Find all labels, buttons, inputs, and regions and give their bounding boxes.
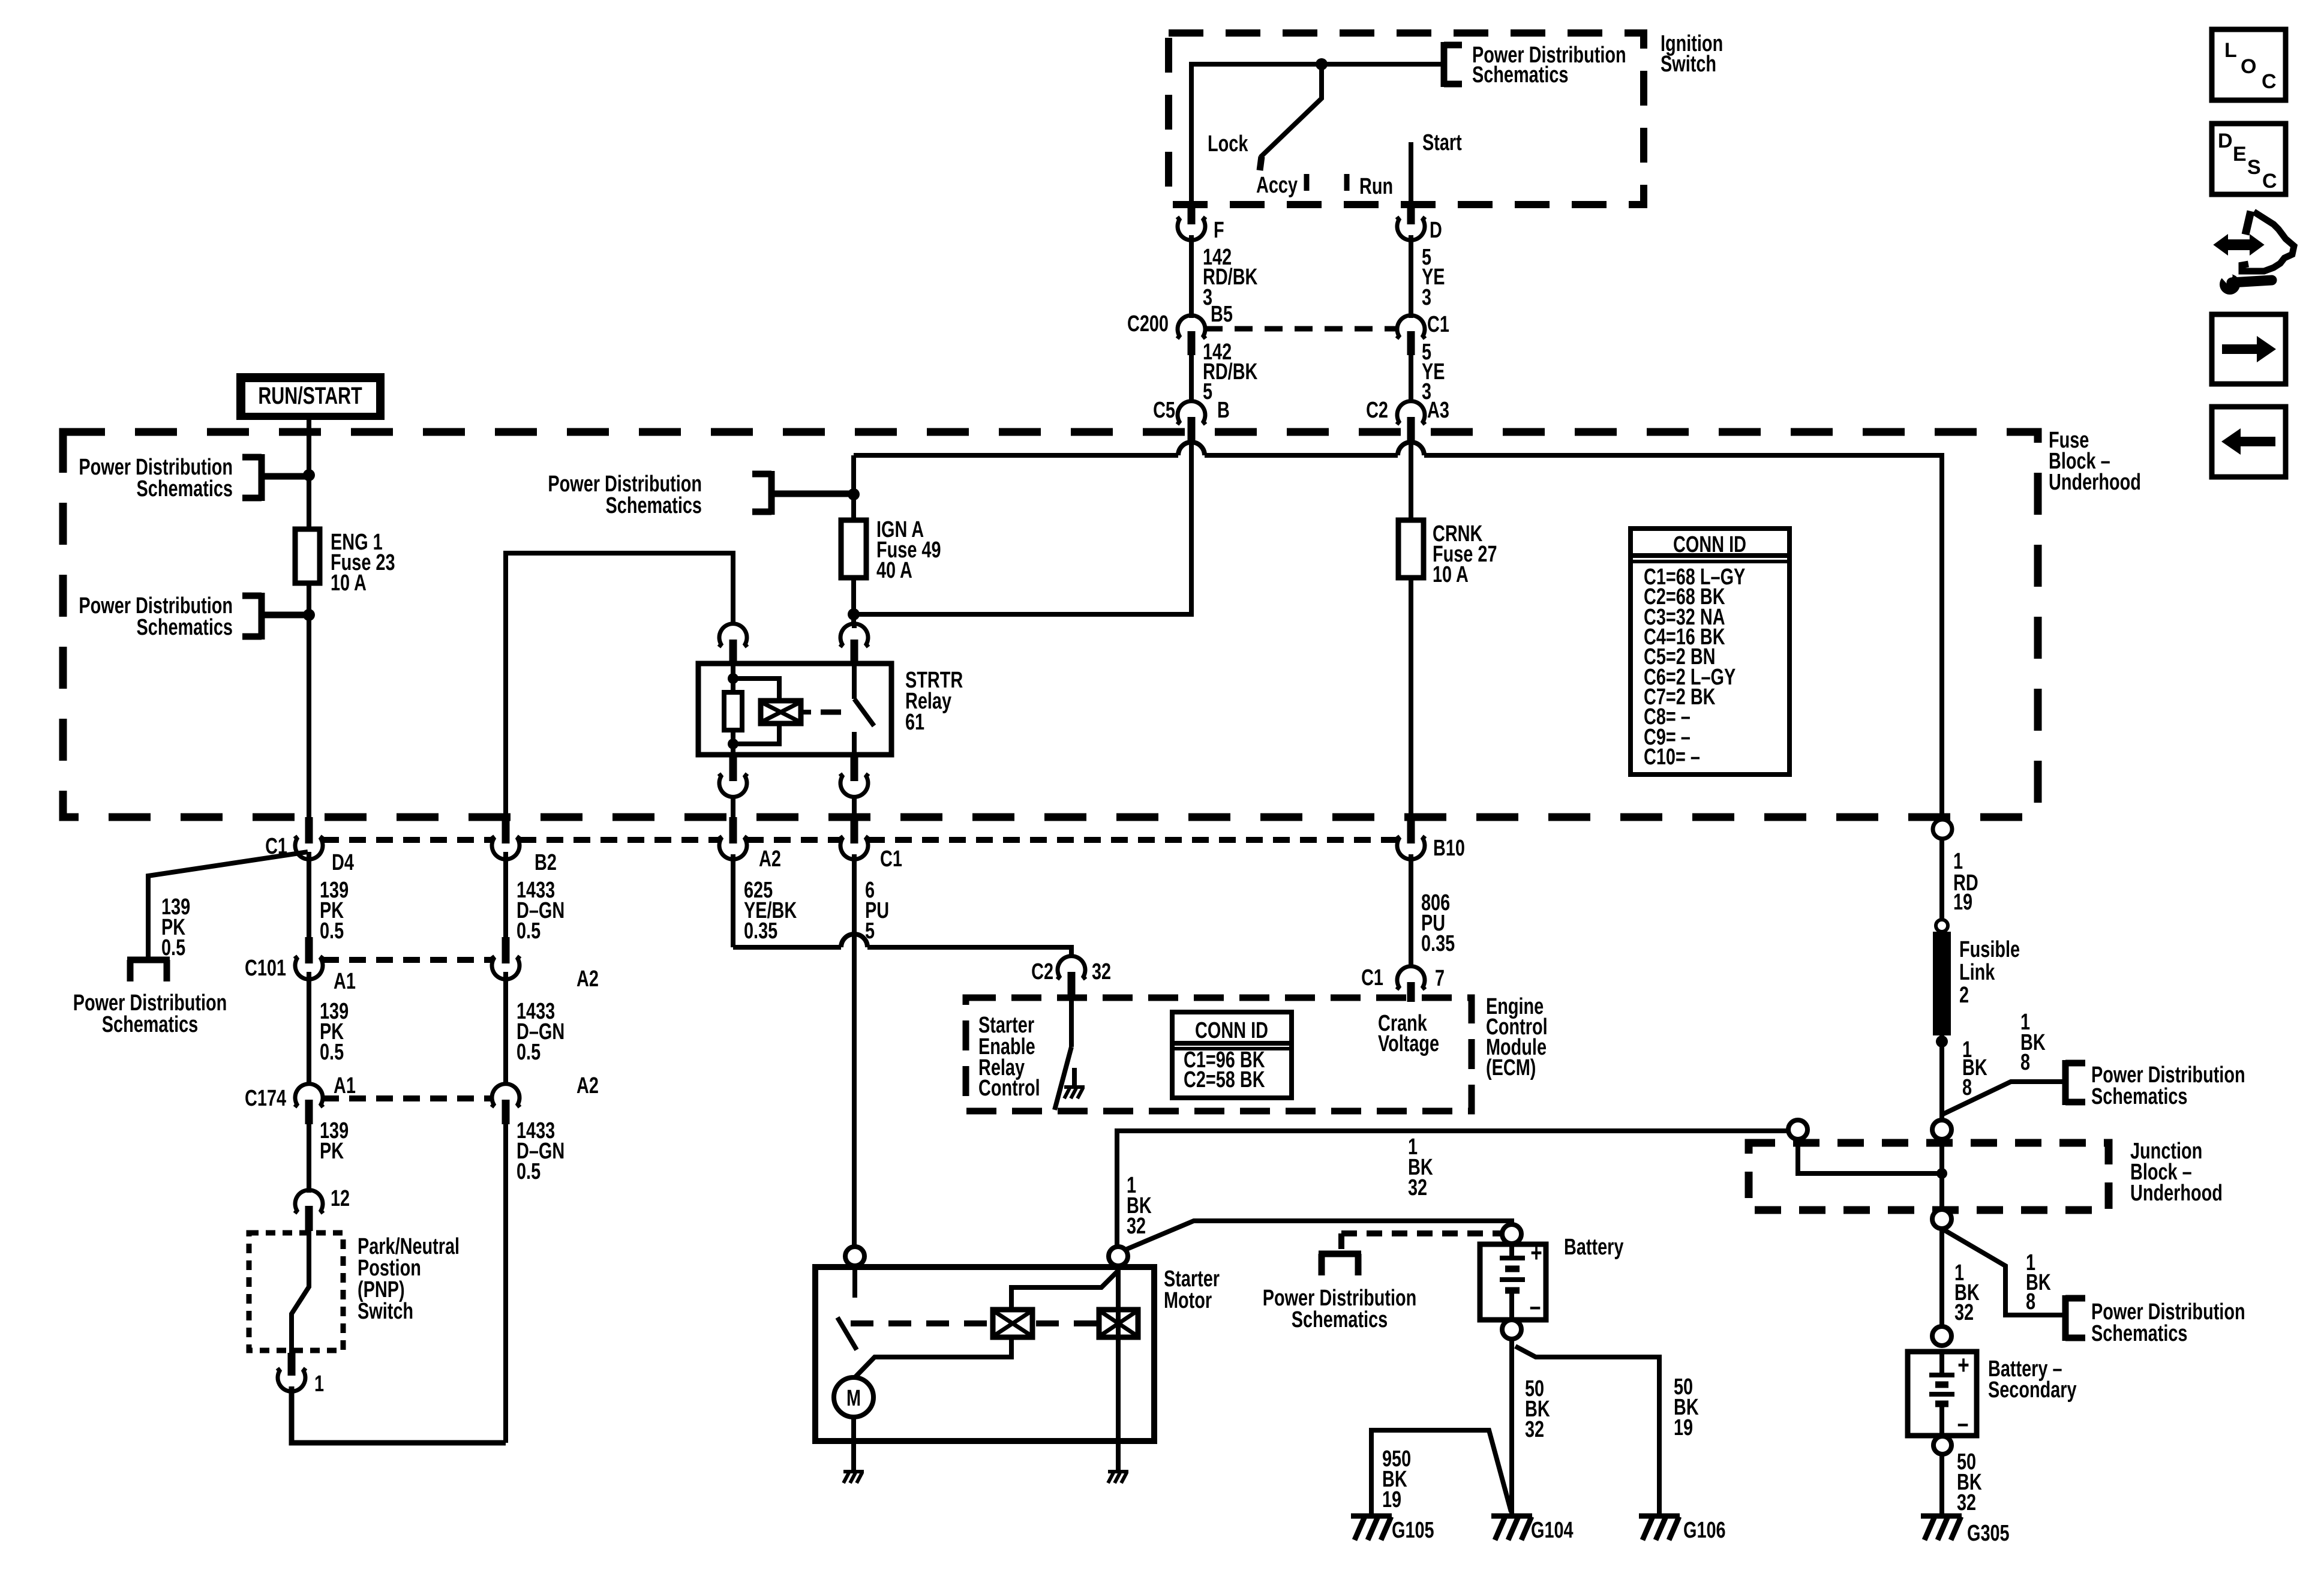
icon DESC box [2212,124,2286,194]
right terminal through coil2 to ground [1116,1266,1121,1441]
terminal eyelet junction block left [1788,1120,1807,1139]
svg-text:Switch: Switch [358,1298,413,1324]
svg-text:F: F [1214,217,1224,243]
svg-text:PK: PK [320,1138,344,1164]
svg-text:A2: A2 [577,966,599,992]
svg-text:A1: A1 [334,1073,356,1098]
svg-text:10 A: 10 A [1433,562,1469,587]
svg-text:C174: C174 [245,1085,286,1111]
svg-text:32: 32 [1127,1213,1146,1239]
svg-text:0.5: 0.5 [320,1039,344,1065]
wire 1433 D-GN 0.5 [506,852,565,944]
svg-text:C2: C2 [1366,397,1388,423]
wire 1433 D-GN 0.5 second [506,972,565,1086]
svg-text:C1: C1 [1361,965,1383,990]
ignition switch box [1169,31,1723,205]
svg-text:5: 5 [865,918,875,944]
wire 950 BK 19 G105 to G104 [1371,1430,1511,1514]
svg-text:0.5: 0.5 [320,918,344,944]
terminal eyelet battery secondary top [1932,1326,1951,1346]
node [303,469,315,481]
svg-text:Schematics: Schematics [1472,62,1568,88]
svg-text:Underhood: Underhood [2049,469,2141,495]
svg-text:O: O [2241,55,2256,78]
svg-text:Schematics: Schematics [137,476,233,502]
terminal eyelet junction block main [1932,1120,1951,1139]
wire relay control to ECM C2 with hop [733,934,1071,957]
battery body dashed link [1341,1230,1502,1236]
svg-text:Accy: Accy [1256,172,1298,198]
svg-text:Schematics: Schematics [1292,1307,1388,1332]
ground starter left [843,1472,864,1483]
connector C174 pin A2 [492,1073,599,1124]
icon left-arrow box [2212,407,2286,477]
svg-text:C2: C2 [1031,959,1053,984]
svg-text:1: 1 [314,1371,324,1397]
wire 139 PK to PNP [309,1118,349,1193]
node coil bottom [728,739,738,749]
node ignition junction [1316,58,1328,70]
PNP switch blade [292,1231,309,1353]
connector pin 12 PNP [295,1185,350,1231]
off-page bracket upper left [242,454,309,501]
connector C2 pin A3 [1366,397,1449,444]
fuse CRNK Fuse 27 10A [1398,520,1497,587]
svg-text:Schematics: Schematics [606,493,702,518]
wire 6 PU 5 [854,854,889,1247]
svg-text:A2: A2 [759,846,781,872]
wire 625 YE/BK 0.35 [733,854,797,947]
terminal eyelet below fuse block [1933,819,1952,839]
fuse ENG 1 Fuse 23 10A [295,529,395,596]
svg-text:32: 32 [1408,1175,1427,1200]
svg-text:0.5: 0.5 [517,1158,541,1184]
ground G105 [1351,1516,1392,1540]
junction block internal wires [1798,1139,1942,1209]
svg-text:G106: G106 [1683,1517,1726,1543]
wire CRNK column [1409,444,1413,520]
svg-text:E: E [2233,143,2247,166]
off-page bracket lower left [242,593,309,640]
PNP switch box [249,1233,460,1350]
svg-text:C1: C1 [1427,311,1449,337]
wire ENG1 column [307,419,311,817]
svg-text:B: B [1217,397,1230,423]
connector C200 C1 side [1397,311,1449,355]
svg-text:C: C [2262,70,2277,93]
svg-text:Underhood: Underhood [2130,1180,2223,1206]
svg-text:8: 8 [2026,1289,2035,1314]
svg-text:Schematics: Schematics [2091,1320,2187,1346]
svg-text:Battery: Battery [1564,1234,1624,1260]
svg-text:L: L [2224,39,2237,62]
wire ignition feed [1191,64,1444,205]
connector pin 1 PNP [278,1353,325,1397]
svg-text:Voltage: Voltage [1378,1031,1439,1056]
ECM box [966,993,1548,1111]
CONN ID table ECM [1172,1012,1292,1098]
svg-text:Switch: Switch [1661,51,1716,77]
svg-text:–: – [1530,1292,1541,1321]
svg-text:61: 61 [905,709,924,735]
ground G106 [1639,1516,1680,1540]
relay switch blade [854,664,874,755]
junction block underhood box [1749,1138,2223,1210]
svg-text:3: 3 [1422,284,1431,310]
solenoid coil 2 [1099,1310,1138,1337]
connector C174 row dashed body [322,1095,492,1101]
node junction block [1936,1168,1947,1179]
svg-text:C101: C101 [245,955,286,981]
svg-text:12: 12 [331,1185,350,1211]
terminal eyelet junction block bottom [1932,1209,1951,1229]
svg-text:19: 19 [1382,1487,1401,1512]
solenoid coil 1 [993,1310,1032,1337]
svg-text:G105: G105 [1392,1517,1434,1543]
coil1 feed from right terminal [1011,1271,1118,1310]
contact tick Run [1344,174,1350,191]
svg-text:M: M [846,1385,861,1411]
icon LOC box [2212,29,2286,100]
svg-text:19: 19 [1674,1415,1693,1440]
wire RUN/START feed from C5 B [854,444,1191,614]
wire 1 BK 8 branch upper [1942,1082,2062,1115]
svg-text:Lock: Lock [1208,131,1248,157]
relay STRTR 61 box [698,664,963,755]
motor M [834,1377,873,1417]
svg-text:19: 19 [1953,889,1972,915]
ground starter right [1108,1472,1128,1483]
terminal eyelet battery secondary bottom [1933,1436,1951,1454]
ground G305 [1921,1516,1962,1540]
svg-text:0.35: 0.35 [1421,930,1455,956]
svg-text:32: 32 [1525,1416,1544,1442]
svg-text:10 A: 10 A [331,570,367,596]
node [848,488,860,500]
wire 139 PK 0.5 branch diagonal [148,852,308,960]
svg-text:C5: C5 [1153,397,1175,423]
relay coil winding symbol [733,679,811,744]
svg-text:+: + [1530,1239,1542,1268]
svg-text:Schematics: Schematics [102,1011,198,1037]
connector C101 pin A1 [245,937,356,994]
svg-text:Control: Control [978,1075,1040,1101]
wire 5 YE 3 [1411,235,1445,318]
svg-text:Start: Start [1422,130,1462,155]
node coil top [728,673,738,684]
svg-text:7: 7 [1435,965,1445,991]
node [848,608,860,620]
wire PNP return loop [292,1386,506,1443]
off-page bracket right upper [2065,1060,2085,1105]
ECM internal switch [1055,998,1074,1110]
svg-text:C10= –: C10= – [1644,744,1700,770]
starter motor box [815,1266,1220,1441]
svg-text:C1: C1 [880,846,902,872]
svg-text:D: D [1430,217,1442,243]
svg-text:D: D [2218,130,2233,152]
wire 50 BK 19 to G106 [1515,1346,1659,1514]
fuse block underhood box [63,427,2141,817]
fuse IGN A Fuse 49 40A [841,517,941,583]
fuse block bottom connector row dashed body [322,837,1397,843]
terminal ring battery negative [1502,1320,1521,1339]
svg-text:CONN ID: CONN ID [1195,1017,1268,1043]
connector C1 pin 7 ECM [1361,965,1445,1002]
svg-text:B5: B5 [1211,301,1233,327]
battery secondary [1908,1351,2077,1438]
relay switch pin bottom [840,755,869,817]
svg-text:0.5: 0.5 [517,918,541,944]
svg-text:Motor: Motor [1164,1287,1212,1313]
svg-text:32: 32 [1954,1299,1974,1325]
svg-text:CONN ID: CONN ID [1673,532,1746,557]
svg-text:D4: D4 [332,849,354,875]
icon right-arrow box [2212,314,2286,384]
wire 139 PK 0.5 second [309,972,349,1086]
svg-text:40 A: 40 A [876,557,912,583]
wire 1 BK 32 to battery secondary [1939,1229,1944,1326]
svg-text:8: 8 [2020,1049,2030,1075]
starter solenoid switch [837,1266,1011,1377]
connector C101 pin A2 [492,937,599,992]
ground G104 [1491,1516,1532,1540]
wire below CRNK fuse [1409,578,1413,817]
svg-text:Schematics: Schematics [137,614,233,640]
svg-text:C: C [2262,170,2277,193]
connector F [1178,205,1224,243]
ground ECM internal [1064,1087,1085,1098]
off-page bracket right lower [2065,1295,2085,1341]
wire 806 PU 0.35 [1411,854,1455,967]
svg-text:+: + [1957,1351,1969,1380]
svg-text:S: S [2247,156,2261,179]
wire 50 BK 32 to G305 [1939,1454,1944,1514]
connector D [1397,205,1442,243]
svg-text:C200: C200 [1127,311,1169,337]
wire 1 BK 8 branch lower [1942,1229,2062,1315]
svg-text:B10: B10 [1433,835,1465,861]
wire down to junction block [1939,1035,1944,1120]
node below link [1936,1035,1948,1047]
svg-text:A2: A2 [577,1073,599,1098]
svg-text:Link: Link [1959,959,1995,985]
motor to ground left [851,1417,856,1471]
svg-text:5: 5 [1203,379,1212,404]
wire 1 BK 32 to battery [1121,1221,1512,1251]
connector C200 B5 side [1127,301,1233,355]
wire 1 BK 32 to junction block [1117,1131,1788,1247]
svg-text:Schematics: Schematics [2091,1083,2187,1109]
RUN/START label box [236,373,385,420]
svg-text:(ECM): (ECM) [1486,1055,1536,1080]
CONN ID table fuse block [1631,529,1789,775]
relay linkage dash [821,710,841,715]
svg-text:B2: B2 [535,849,557,875]
off-page bracket middle [752,471,854,515]
svg-text:A1: A1 [334,968,356,994]
icon vehicle with wrench [2214,211,2294,295]
svg-text:–: – [1957,1409,1969,1438]
wire 139 PK 0.5 main [309,852,349,944]
wire below IGN A fuse [851,578,856,625]
fusible link 2 [1933,920,2020,1035]
svg-text:0.5: 0.5 [517,1039,541,1065]
off-page bracket bottom left [127,960,170,981]
C200 body dashed [1205,326,1398,332]
terminal ring left [845,1247,864,1266]
switch wiper to Lock [1260,64,1322,170]
connector C174 pin A1 [245,1073,356,1124]
connector B10 [1397,817,1465,861]
svg-text:G104: G104 [1531,1517,1574,1543]
connector A2 [719,817,781,872]
wire 142 RD/BK 5 [1191,339,1258,404]
connector C101 row dashed body [322,957,492,963]
starter linkage dash [851,1320,1099,1326]
wire bus top with hops [854,442,1942,817]
right leg to ground [1116,1441,1121,1471]
relay coil pin bottom [719,755,747,817]
relay switch pin top [840,624,869,664]
relay coil pin top [719,624,747,664]
svg-text:32: 32 [1092,959,1111,984]
wire 142 RD/BK 3 [1191,235,1258,318]
wire 1 RD 19 [1939,817,1944,920]
off-page bracket battery [1319,1254,1361,1275]
wire 50 BK 32 battery negative [1509,1339,1514,1514]
svg-text:32: 32 [1957,1490,1976,1515]
relay coil resistor [724,664,742,755]
contact tick Accy [1304,174,1310,191]
svg-text:Run: Run [1359,173,1393,199]
battery [1480,1234,1624,1321]
wire Start [1409,142,1413,205]
svg-text:RUN/START: RUN/START [258,382,362,409]
connector C1 pin D4 [265,817,354,875]
svg-text:Secondary: Secondary [1988,1377,2077,1403]
off-page bracket power distribution (ignition) [1444,42,1462,87]
connector C1 (relay switch out) [840,817,902,872]
svg-text:0.35: 0.35 [744,918,777,944]
node [303,609,315,621]
svg-text:Fusible: Fusible [1959,936,2020,962]
terminal ring right [1109,1247,1128,1266]
svg-text:8: 8 [1962,1074,1972,1100]
svg-text:2: 2 [1959,982,1969,1008]
wire B2 branch to relay coil [506,553,733,817]
connector B2 [492,817,557,875]
wire 5 YE 3 lower [1411,339,1445,404]
connector C5 pin B [1153,397,1230,444]
wire IGN A column [851,455,856,520]
svg-text:G305: G305 [1967,1520,2010,1546]
wire 1433 D-GN 0.5 return [506,1118,565,1443]
svg-text:A3: A3 [1427,397,1449,423]
svg-text:C2=58 BK: C2=58 BK [1184,1067,1265,1092]
terminal ring battery positive [1502,1224,1521,1244]
connector C2 pin 32 ECM [1031,956,1111,998]
